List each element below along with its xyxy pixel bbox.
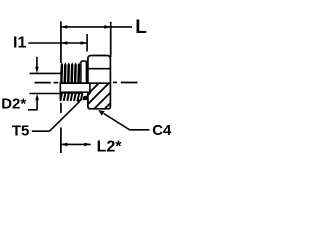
thread runout line (section) [83, 92, 91, 100]
dim L2: left arrow [61, 143, 67, 147]
thread side view bars [60, 62, 80, 83]
centerline left long dash [35, 82, 51, 84]
hex section outline [88, 83, 111, 109]
centerline right long dash [121, 82, 138, 84]
C4 leader diagonal [104, 114, 130, 130]
dim L: dimension line with leader [61, 26, 132, 28]
dim I1: right arrow [81, 41, 87, 45]
section boundary line at axis [60, 82, 111, 84]
plug end face line (section) [59, 92, 61, 99]
dim L2: left extension line lower [60, 127, 62, 153]
dim I1: left arrow [61, 41, 67, 45]
svg-text:C4: C4 [152, 122, 172, 139]
thread teeth (section) [61, 94, 83, 101]
svg-text:I1: I1 [13, 35, 26, 52]
svg-text:T5: T5 [12, 122, 30, 139]
dim D2: down arrow [36, 57, 38, 69]
svg-text:L: L [135, 17, 147, 38]
dim D2: bottom extension line [30, 93, 60, 95]
hex head side view [88, 56, 111, 84]
hex chamfer line [88, 68, 110, 70]
svg-text:L2*: L2* [97, 138, 123, 155]
dim L2: right arrow [84, 143, 90, 147]
T5 leader horizontal [32, 130, 50, 132]
dim D2: top extension line [30, 72, 62, 74]
dim D2: up arrow [36, 100, 38, 110]
dim L2: left extension line upper [60, 103, 62, 113]
svg-text:D2*: D2* [1, 95, 26, 112]
T5 leader diagonal [50, 101, 80, 131]
centerline right short dash [113, 81, 117, 83]
dim L: left extension line [60, 21, 62, 63]
dim L: right extension line [110, 22, 112, 57]
dim L: left arrow [61, 25, 67, 29]
thread teeth root line (section) [60, 92, 82, 94]
T5 arrowhead [76, 99, 82, 103]
C4 arrowhead [98, 110, 104, 116]
seal ring (section dot) [83, 96, 88, 101]
dim L2: dimension line [61, 143, 91, 145]
seal collar side view [81, 61, 87, 83]
dim I1: dimension line with leader [28, 42, 87, 44]
hex section hatch [73, 83, 130, 109]
dim I1: right extension line [86, 34, 88, 52]
dim D2: leader [28, 109, 38, 111]
dim L: right arrow [104, 25, 110, 29]
centerline left short dash [54, 82, 59, 84]
socket bore (section) [60, 83, 90, 92]
C4 leader horizontal [130, 129, 150, 131]
